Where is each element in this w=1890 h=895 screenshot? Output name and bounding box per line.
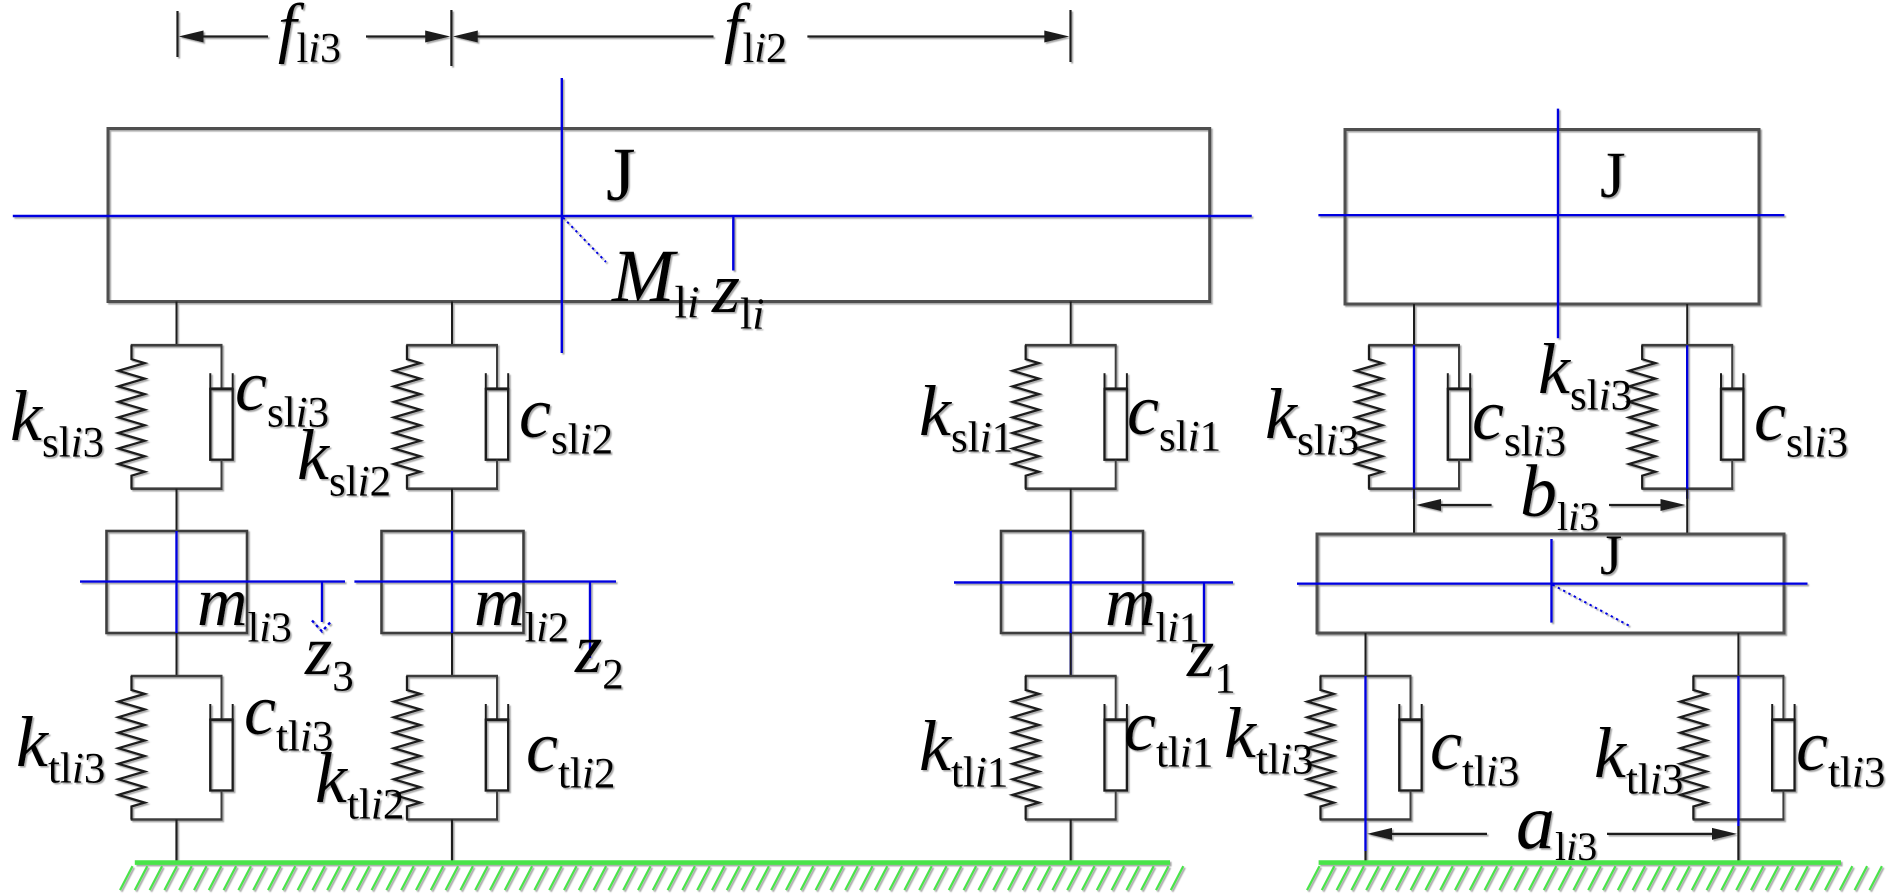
bogie vertical axis (blue): [1550, 539, 1552, 623]
damper c_tli3: [1399, 676, 1421, 820]
mass m_li1 horizontal axis (blue): [954, 581, 1233, 583]
blue axis through right right tire unit: [1737, 676, 1739, 826]
blue axis through right left tire unit: [1364, 676, 1366, 851]
dimension tick at suspension 1 (x=1070.5): [1069, 10, 1071, 62]
damper c_tli2: [486, 676, 508, 820]
beam body M_li / J (left large rectangle): [108, 129, 1210, 302]
wheel mass m_li1 rectangle: [1001, 531, 1143, 633]
damper c_sli3: [1721, 345, 1743, 489]
blue dashed leader from bogie centroid: [1553, 585, 1632, 627]
ground under left diagram (green hatched): [120, 863, 1183, 891]
spring k_tli3: [1307, 676, 1333, 820]
right right suspension unit frame (top/bottom bars): [1641, 345, 1733, 489]
dimension f_li2 arrows and line: [453, 31, 1070, 43]
bogie body J rectangle (right lower): [1317, 534, 1784, 633]
blue axis through right left suspension unit: [1413, 345, 1415, 499]
mass m_li3 vertical axis (blue): [175, 531, 177, 633]
spring k_sli3: [118, 345, 144, 489]
wire mass m_li1 to tire unit 1: [1070, 633, 1072, 676]
beam centroid horizontal axis (blue): [13, 215, 1252, 217]
wire mass m_li3 to tire unit 3: [176, 633, 178, 676]
wire bogie to right right tire unit: [1737, 633, 1739, 676]
right left tire unit frame (top/bottom bars): [1320, 676, 1412, 820]
wire mass m_li2 to tire unit 2: [451, 633, 453, 676]
damper c_tli3: [1772, 676, 1794, 820]
right left suspension unit frame (top/bottom bars): [1368, 345, 1460, 489]
dimension tick at suspension 2 (x=451.4): [450, 10, 452, 66]
wire suspension unit 3 to wheel mass m_li3: [176, 489, 178, 531]
z_1i displacement tick (blue): [732, 216, 734, 271]
wire suspension unit 1 to wheel mass m_li1: [1070, 489, 1072, 531]
right right tire unit frame (top/bottom bars): [1693, 676, 1785, 820]
mass m_li2 horizontal axis (blue): [354, 580, 616, 582]
wire right left suspension to bogie: [1413, 489, 1415, 535]
svg-text:J: J: [1600, 139, 1626, 212]
right beam body J rectangle: [1345, 130, 1759, 305]
mass m_li1 vertical axis (blue): [1069, 531, 1071, 677]
dimension b_li3 arrows and line: [1416, 499, 1686, 511]
spring k_tli1: [1013, 676, 1039, 820]
wheel mass m_li2 rectangle: [382, 531, 524, 633]
damper c_tli3: [210, 676, 232, 820]
beam centroid vertical axis (blue): [561, 78, 563, 353]
damper c_tli1: [1105, 676, 1127, 820]
wire right beam to left suspension unit: [1413, 304, 1415, 345]
damper c_sli3: [1448, 345, 1470, 489]
wire bogie to right left tire unit: [1365, 633, 1367, 676]
spring k_tli3: [118, 676, 144, 820]
wire right beam to right suspension unit: [1686, 304, 1688, 345]
ground under right diagram (green hatched): [1307, 863, 1882, 891]
wire suspension unit 2 to wheel mass m_li2: [451, 489, 453, 531]
bogie horizontal axis (blue): [1297, 583, 1808, 585]
damper c_sli1: [1105, 345, 1127, 489]
wheel mass m_li3 rectangle: [107, 531, 248, 633]
wire right left tire unit to ground: [1364, 851, 1366, 861]
tire unit 1 frame (top/bottom bars): [1025, 676, 1117, 820]
svg-text:J: J: [1600, 524, 1622, 587]
suspension unit 1 frame (top/bottom bars): [1025, 345, 1117, 489]
mass m_li2 vertical axis (blue): [451, 531, 453, 633]
wire tire unit 1 to ground: [1070, 820, 1072, 862]
wire beam to suspension unit 1: [1070, 302, 1072, 346]
spring k_sli1: [1013, 345, 1039, 489]
damper c_sli3: [210, 345, 232, 489]
dimension f_li3 arrows and line: [179, 31, 451, 43]
suspension unit 3 frame (top/bottom bars): [131, 345, 223, 489]
spring k_tli3: [1680, 676, 1706, 820]
blue axis through right right suspension unit: [1686, 345, 1688, 499]
wire beam to suspension unit 2: [451, 302, 453, 346]
z_2 displacement tick (blue): [589, 582, 591, 658]
spring k_sli2: [394, 345, 420, 489]
tire unit 3 frame (top/bottom bars): [131, 676, 223, 820]
wire right right suspension to bogie: [1686, 489, 1688, 535]
svg-text:J: J: [606, 133, 636, 217]
right beam horizontal axis (blue): [1318, 214, 1784, 216]
suspension unit 2 frame (top/bottom bars): [406, 345, 498, 489]
mass m_li3 horizontal axis (blue): [80, 580, 345, 582]
dimension a_li3 arrows and line: [1367, 828, 1737, 840]
dimension tick at suspension 3 (x=177.5): [176, 11, 178, 57]
wire beam to suspension unit 3: [176, 302, 178, 346]
wire tire unit 3 to ground: [175, 820, 177, 862]
spring k_sli3: [1629, 345, 1655, 489]
spring k_tli2: [394, 676, 420, 820]
tire unit 2 frame (top/bottom bars): [406, 676, 498, 820]
wire right right tire unit to ground: [1737, 826, 1739, 861]
damper c_sli2: [486, 345, 508, 489]
blue dotted leader from centroid to M_li label: [563, 218, 606, 263]
spring k_sli3: [1356, 345, 1382, 489]
z_1 displacement tick (blue): [1203, 583, 1205, 643]
right beam vertical axis (blue): [1557, 109, 1559, 339]
wire tire unit 2 to ground: [451, 820, 453, 862]
z_3 displacement arrow (blue dashed, arrowhead): [312, 582, 332, 632]
